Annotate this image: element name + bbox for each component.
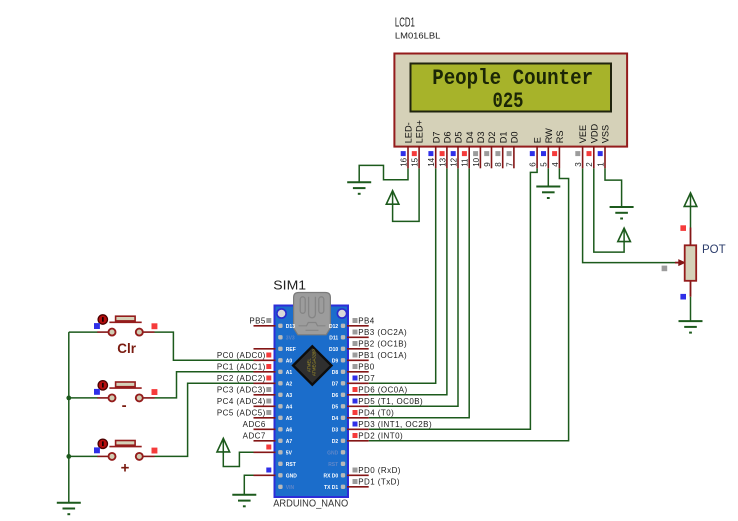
svg-text:PD1 (TxD): PD1 (TxD) [358,478,400,487]
svg-text:D9: D9 [332,358,339,364]
svg-text:A0: A0 [286,358,293,364]
svg-text:025: 025 [493,89,524,114]
svg-text:-: - [122,397,127,414]
svg-text:10: 10 [472,157,481,166]
svg-text:A5: A5 [286,416,293,422]
svg-text:D5: D5 [454,132,464,144]
svg-text:A3: A3 [286,393,293,399]
svg-text:D4: D4 [465,132,475,144]
svg-text:TX D1: TX D1 [324,485,338,491]
svg-text:POT: POT [702,244,726,256]
svg-text:D11: D11 [329,335,338,341]
svg-text:D6: D6 [332,393,339,399]
svg-text:SIM1: SIM1 [273,278,306,292]
svg-text:ADC7: ADC7 [243,432,266,441]
svg-text:PD2 (INT0): PD2 (INT0) [358,432,403,441]
svg-text:GND: GND [327,450,339,456]
svg-text:A7: A7 [286,439,293,445]
svg-text:RST: RST [328,462,338,468]
svg-text:PB1 (OC1A): PB1 (OC1A) [358,351,407,360]
svg-text:PC1 (ADC1): PC1 (ADC1) [217,363,266,372]
svg-text:D2: D2 [487,132,497,144]
svg-text:D1: D1 [498,132,508,144]
svg-text:E: E [533,137,543,143]
svg-text:VIN: VIN [286,485,295,491]
svg-text:D7: D7 [332,381,339,387]
svg-text:PC5 (ADC5): PC5 (ADC5) [217,409,266,418]
svg-text:LED+: LED+ [415,120,425,143]
svg-text:PB4: PB4 [358,317,375,326]
svg-text:D0: D0 [510,132,520,144]
svg-text:People Counter: People Counter [432,66,593,91]
svg-text:D2: D2 [332,439,339,445]
svg-text:ADC6: ADC6 [243,420,266,429]
svg-text:15: 15 [411,157,420,166]
svg-text:3V3: 3V3 [286,335,295,341]
svg-text:D7: D7 [431,132,441,144]
svg-text:14: 14 [427,157,436,166]
svg-text:Clr: Clr [117,340,136,356]
svg-text:PD3 (INT1, OC2B): PD3 (INT1, OC2B) [358,420,432,429]
svg-text:D12: D12 [329,324,338,330]
svg-text:+: + [121,460,130,477]
svg-text:PD0 (RxD): PD0 (RxD) [358,466,401,475]
svg-text:PC3 (ADC3): PC3 (ADC3) [217,386,266,395]
svg-text:PC4 (ADC4): PC4 (ADC4) [217,397,266,406]
svg-text:PB2 (OC1B): PB2 (OC1B) [358,340,407,349]
svg-text:D10: D10 [329,347,338,353]
svg-text:LCD1: LCD1 [395,15,415,29]
svg-text:GND: GND [286,473,298,479]
svg-text:RW: RW [544,128,554,143]
svg-text:RX D0: RX D0 [323,473,338,479]
svg-text:4: 4 [551,162,560,167]
svg-text:PC2 (ADC2): PC2 (ADC2) [217,374,266,383]
svg-text:16: 16 [399,157,408,166]
svg-text:A4: A4 [286,404,293,410]
svg-text:7: 7 [505,162,514,167]
svg-text:2: 2 [585,162,594,167]
svg-text:PC0 (ADC0): PC0 (ADC0) [217,351,266,360]
svg-text:PD7: PD7 [358,374,375,383]
svg-text:PB3 (OC2A): PB3 (OC2A) [358,328,407,337]
svg-text:RS: RS [555,131,565,144]
svg-text:A6: A6 [286,427,293,433]
svg-text:D3: D3 [332,427,339,433]
svg-text:D4: D4 [332,416,339,422]
svg-text:PB5: PB5 [249,317,266,326]
svg-text:6: 6 [529,162,538,167]
svg-text:D6: D6 [443,132,453,144]
svg-text:PB0: PB0 [358,363,375,372]
svg-text:VDD: VDD [589,124,599,144]
svg-text:A2: A2 [286,381,293,387]
svg-text:A1: A1 [286,370,293,376]
svg-text:D3: D3 [476,132,486,144]
svg-text:ARDUINO_NANO: ARDUINO_NANO [273,498,348,509]
svg-text:5V: 5V [286,450,293,456]
svg-text:13: 13 [438,157,447,166]
svg-text:LED-: LED- [404,122,414,143]
svg-text:LM016LBL: LM016LBL [395,32,441,41]
svg-text:5: 5 [540,162,549,167]
svg-text:11: 11 [461,158,470,167]
svg-text:3: 3 [574,162,583,167]
svg-text:12: 12 [449,157,458,166]
svg-text:PD4 (T0): PD4 (T0) [358,409,394,418]
svg-text:8: 8 [494,162,503,167]
svg-text:D8: D8 [332,370,339,376]
svg-text:RST: RST [286,462,296,468]
svg-text:PD6 (OC0A): PD6 (OC0A) [358,386,407,395]
svg-text:VSS: VSS [601,125,611,143]
svg-text:1: 1 [596,162,605,167]
svg-text:D5: D5 [332,404,339,410]
svg-text:9: 9 [483,162,492,167]
svg-text:REF: REF [286,347,296,353]
svg-text:ATMEGA328P: ATMEGA328P [312,349,317,376]
svg-text:PD5 (T1, OC0B): PD5 (T1, OC0B) [358,397,423,406]
svg-text:VEE: VEE [578,125,588,143]
svg-text:D13: D13 [286,324,295,330]
